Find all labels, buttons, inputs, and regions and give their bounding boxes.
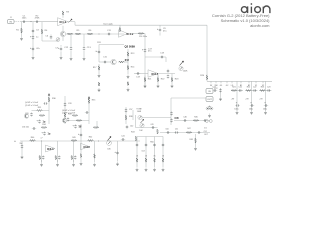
resistor R6 xyxy=(87,33,93,35)
capacitor C5 xyxy=(32,47,34,51)
capacitor C34 xyxy=(32,127,36,129)
svg-text:R13: R13 xyxy=(131,53,134,55)
ground xyxy=(144,84,147,88)
logo aion letter a xyxy=(241,6,247,13)
capacitor C36 xyxy=(21,144,23,148)
ground xyxy=(145,168,148,172)
resistor R17 xyxy=(98,66,100,70)
wire C12 drop xyxy=(70,34,72,47)
ground xyxy=(264,111,267,115)
wire leg C43 xyxy=(117,141,119,162)
wire xyxy=(157,75,159,78)
svg-text:C49: C49 xyxy=(150,124,153,126)
svg-text:R31: R31 xyxy=(38,107,41,109)
svg-text:Q7 VF = 5.2mV: Q7 VF = 5.2mV xyxy=(62,113,76,115)
wire tone top row xyxy=(145,56,166,58)
capacitor C41 xyxy=(121,138,125,140)
potentiometer GAIN xyxy=(107,141,112,146)
capacitor C37 xyxy=(85,111,89,113)
svg-text:R22: R22 xyxy=(247,87,250,89)
svg-text:x7: x7 xyxy=(41,138,43,140)
input pad IN xyxy=(8,20,15,24)
node C xyxy=(40,140,43,143)
wire R22 leg xyxy=(157,76,159,85)
capacitor CE3 xyxy=(264,104,268,106)
capacitor CE2 xyxy=(250,104,254,106)
resistor R36 xyxy=(72,115,78,117)
svg-text:100u: 100u xyxy=(249,108,253,110)
wire leg header xyxy=(137,136,163,138)
trimmer T1 xyxy=(56,38,60,42)
ground xyxy=(20,37,23,41)
svg-text:C42: C42 xyxy=(130,126,133,128)
svg-text:IC1.2: IC1.2 xyxy=(127,32,134,36)
svg-text:R48: R48 xyxy=(190,139,193,141)
capacitor CL2 xyxy=(58,155,60,159)
ground xyxy=(83,57,86,61)
capacitor C13 xyxy=(83,46,85,50)
wire Q2 feed xyxy=(99,44,124,46)
resistor R43 xyxy=(135,136,137,141)
wire xyxy=(80,158,82,162)
capacitor C44 xyxy=(170,111,172,115)
wire rail to power section xyxy=(206,25,208,81)
svg-text:470K: 470K xyxy=(35,18,40,20)
stub B1 xyxy=(240,81,242,83)
svg-text:100u: 100u xyxy=(263,108,267,110)
resistor R10 xyxy=(119,27,121,32)
svg-text:C23: C23 xyxy=(267,87,270,89)
ground xyxy=(136,168,139,172)
resistor R44 xyxy=(94,154,96,158)
potentiometer VOL wiper xyxy=(180,61,184,66)
ground xyxy=(32,56,35,60)
wire xyxy=(70,51,72,57)
resistor R9 xyxy=(138,33,144,35)
capacitor C2 xyxy=(35,21,39,23)
capacitor CG2 xyxy=(145,143,147,147)
capacitor C17 xyxy=(144,48,146,52)
svg-text:R35: R35 xyxy=(92,100,95,102)
svg-text:C52: C52 xyxy=(204,131,207,133)
capacitor CG3 xyxy=(153,143,155,147)
svg-text:IC2.1: IC2.1 xyxy=(152,72,159,76)
capacitor CG1 xyxy=(136,143,138,147)
capacitor C42 xyxy=(126,125,128,129)
wire center chain xyxy=(80,124,82,141)
ground xyxy=(208,114,211,118)
wire xyxy=(159,33,161,36)
wire R1 drop xyxy=(21,22,23,37)
resistor R5b xyxy=(67,33,73,35)
wire return drop xyxy=(170,98,172,125)
wire power rail xyxy=(207,80,272,82)
capacitor C47 xyxy=(203,119,207,121)
svg-text:C57: C57 xyxy=(129,109,132,111)
ground xyxy=(98,88,101,92)
capacitor C49 xyxy=(151,126,155,128)
svg-text:C41: C41 xyxy=(121,136,124,138)
ground xyxy=(127,88,130,92)
wire xyxy=(73,160,75,163)
resistor R38 xyxy=(125,115,127,120)
svg-text:bias supply: bias supply xyxy=(104,23,113,25)
svg-text:C53: C53 xyxy=(141,151,144,153)
svg-text:R40: R40 xyxy=(31,137,34,139)
ground xyxy=(236,111,239,115)
ground xyxy=(98,74,101,78)
wire return net xyxy=(171,97,206,99)
resistor R35 xyxy=(88,99,90,104)
resistor RL1 xyxy=(39,155,41,159)
wire IC2.1 output xyxy=(158,73,175,75)
potentiometer PAN xyxy=(140,123,144,127)
svg-text:R42: R42 xyxy=(89,137,92,139)
svg-text:R12: R12 xyxy=(125,60,130,62)
ground xyxy=(171,84,174,88)
wire R21 leg xyxy=(144,76,146,85)
wire leg BR4 xyxy=(162,137,164,168)
svg-text:R17: R17 xyxy=(93,67,96,69)
transistor Q2 xyxy=(111,59,116,64)
capacitor C57 xyxy=(125,108,127,112)
wire C36 leg xyxy=(21,141,23,155)
resistor R1 xyxy=(21,28,23,33)
wire bias feed xyxy=(48,93,50,124)
transistor Q6 xyxy=(62,118,66,122)
wire leg BL3 xyxy=(73,141,75,162)
resistor R13 xyxy=(127,52,129,57)
resistor R4 xyxy=(41,29,43,34)
ground xyxy=(250,111,253,115)
resistor R46 xyxy=(157,129,159,134)
stub G1 xyxy=(220,81,222,83)
capacitor C50 xyxy=(166,131,170,133)
stub 9V xyxy=(210,81,212,83)
resistor RG2 xyxy=(145,158,147,162)
ground xyxy=(116,162,119,166)
capacitor CB3 xyxy=(267,89,271,91)
ground xyxy=(194,147,197,151)
svg-text:Q2 5089: Q2 5089 xyxy=(125,44,136,48)
wire C13 drop xyxy=(83,34,85,47)
svg-text:100u: 100u xyxy=(234,108,238,110)
resistor R22 xyxy=(157,77,159,81)
svg-text:R23: R23 xyxy=(261,87,264,89)
capacitor C40 xyxy=(80,133,82,137)
svg-text:R43: R43 xyxy=(131,132,134,134)
wire Q2 base row xyxy=(99,61,111,63)
svg-text:C46: C46 xyxy=(183,116,186,118)
wire side chain 3 xyxy=(132,110,134,120)
resistor R5 xyxy=(75,33,81,35)
capacitor C43 xyxy=(116,151,118,155)
ground xyxy=(72,163,75,167)
resistor R20 xyxy=(206,75,208,80)
stub V1 xyxy=(255,81,257,83)
capacitor C30 xyxy=(43,102,47,104)
capacitor CE1 xyxy=(235,104,239,106)
op-amp IC1.2 body xyxy=(119,30,128,38)
svg-text:100K: 100K xyxy=(137,111,142,113)
wire rail drop xyxy=(74,22,76,26)
wire mix row xyxy=(160,132,210,134)
capacitor C19 xyxy=(136,72,140,74)
resistor R33 xyxy=(64,113,66,118)
wire branch 3 top xyxy=(260,90,272,92)
resistor R47 xyxy=(186,132,192,134)
svg-text:C22: C22 xyxy=(253,87,256,89)
ground xyxy=(60,56,63,60)
wire pan feed xyxy=(135,115,137,128)
wire branch 3 xyxy=(265,81,267,111)
capacitor C24 xyxy=(213,89,217,91)
resistor RB1 xyxy=(231,90,237,92)
resistor R18 xyxy=(98,82,100,86)
capacitor C15 xyxy=(103,61,107,63)
svg-text:Q6 VF = 5.2mV: Q6 VF = 5.2mV xyxy=(62,110,76,112)
ground xyxy=(153,168,156,172)
wire xyxy=(80,141,82,153)
resistor R40 xyxy=(30,140,36,142)
capacitor C9 xyxy=(159,28,161,32)
wire branch 1 xyxy=(236,81,238,111)
resistor R49 xyxy=(71,140,77,142)
svg-text:R47: R47 xyxy=(187,128,190,130)
resistor RG3 xyxy=(154,158,156,162)
wire side chain xyxy=(64,96,66,124)
wire branch 2 xyxy=(251,81,253,111)
resistor RL2 xyxy=(55,155,57,159)
wire branch 1 top xyxy=(231,90,243,92)
LED D1 xyxy=(206,107,209,110)
potentiometer TONE xyxy=(138,115,142,119)
svg-text:J1: J1 xyxy=(10,17,12,19)
wire Q2 emitter xyxy=(125,61,129,63)
capacitor C3 xyxy=(32,29,34,33)
svg-text:G1: G1 xyxy=(220,85,223,87)
resistor RL3 xyxy=(71,155,73,159)
wire tone net xyxy=(142,117,171,119)
wire input dashed xyxy=(15,21,22,23)
resistor R3 xyxy=(62,11,64,16)
svg-text:Q4 VF = 5.2mV: Q4 VF = 5.2mV xyxy=(25,102,39,104)
stub G2 xyxy=(226,81,228,83)
ground xyxy=(127,75,130,79)
wire R3 to IC1 xyxy=(62,15,64,17)
svg-text:R38: R38 xyxy=(129,116,132,118)
resistor R41 xyxy=(80,153,82,157)
wire leg BR1 xyxy=(136,137,138,168)
capacitor C11 xyxy=(107,33,111,35)
wire bias drop xyxy=(32,22,34,56)
ground xyxy=(219,97,222,101)
potentiometer GAIN wiper xyxy=(108,137,112,141)
capacitor C32 xyxy=(38,119,40,123)
op-amp IC2.1 body xyxy=(148,70,158,78)
power arrow xyxy=(48,94,50,96)
wire bottom signal row xyxy=(20,140,140,142)
op-amp IC1.1 body xyxy=(58,18,69,26)
wire xyxy=(57,160,59,163)
ground xyxy=(70,57,73,61)
svg-text:IC3.1: IC3.1 xyxy=(47,147,54,151)
svg-text:G2: G2 xyxy=(226,85,229,87)
svg-text:OUT: OUT xyxy=(207,99,212,101)
wire leg BL1 xyxy=(41,141,43,162)
resistor RB3 xyxy=(260,90,266,92)
ground xyxy=(93,163,96,167)
resistor RG4 xyxy=(162,158,164,162)
resistor R23 xyxy=(171,77,173,81)
stub B2 xyxy=(248,81,250,83)
logo aion letter o xyxy=(255,7,261,13)
wire leg BR2 xyxy=(145,137,147,168)
svg-text:100K: 100K xyxy=(183,71,188,73)
capacitor C51 xyxy=(174,131,178,133)
wire xyxy=(60,45,62,47)
wire IC1 output xyxy=(68,21,75,23)
wire stub xyxy=(96,121,98,128)
resistor R39 xyxy=(93,127,99,129)
wire tone mid row xyxy=(134,73,148,75)
resistor R31 xyxy=(37,110,43,112)
svg-text:R45: R45 xyxy=(194,116,197,118)
resistor R37 xyxy=(76,120,82,122)
svg-text:C33: C33 xyxy=(68,103,71,105)
logo aion letter i xyxy=(251,3,253,13)
jack pad OUT xyxy=(206,97,213,102)
wire leg BL2 xyxy=(57,141,59,162)
wire bias row xyxy=(42,40,59,42)
stub V2 xyxy=(262,81,264,83)
capacitor C46 xyxy=(183,119,187,121)
svg-text:C40: C40 xyxy=(78,126,81,128)
ground xyxy=(162,168,165,172)
stub LD xyxy=(231,81,233,83)
resistor R14 xyxy=(127,65,129,69)
capacitor CL3 xyxy=(74,155,76,159)
potentiometer PAN wiper xyxy=(141,119,144,123)
svg-text:R50: R50 xyxy=(150,142,153,144)
resistor RB2 xyxy=(246,90,252,92)
logo aion letter n xyxy=(263,6,270,13)
node D xyxy=(97,140,100,143)
ground xyxy=(21,155,24,159)
capacitor C18 xyxy=(160,56,164,58)
capacitor C7 xyxy=(60,47,62,51)
capacitor C21 xyxy=(167,74,169,78)
wire C9 drop xyxy=(159,25,161,27)
svg-text:C34 10n: C34 10n xyxy=(22,127,29,129)
svg-text:D1: D1 xyxy=(204,128,206,130)
node B xyxy=(98,33,101,36)
wire side chain 2 xyxy=(125,107,127,124)
wire branch 2 top xyxy=(246,90,258,92)
svg-text:R34: R34 xyxy=(42,124,45,126)
jack pad IN xyxy=(206,89,213,94)
capacitor C14 xyxy=(98,50,100,54)
wire xyxy=(68,120,89,122)
ground xyxy=(80,162,83,166)
svg-text:C16 100n: C16 100n xyxy=(139,36,147,38)
node A xyxy=(30,20,33,23)
wire xyxy=(41,160,43,163)
capacitor CB1 xyxy=(238,89,242,91)
resistor R15 xyxy=(127,82,129,86)
wire C7 to ground xyxy=(60,52,62,56)
resistor R48 xyxy=(195,138,197,143)
potentiometer VOL xyxy=(179,66,183,70)
capacitor CL1 xyxy=(42,155,44,159)
svg-text:C21: C21 xyxy=(238,87,241,89)
capacitor C20 xyxy=(167,69,169,73)
svg-text:IC3.2: IC3.2 xyxy=(84,145,91,149)
capacitor C12 xyxy=(70,46,72,50)
wire IC1 out drop xyxy=(62,26,64,32)
wire R10 drop xyxy=(119,25,121,32)
resistor R21 xyxy=(144,77,146,81)
capacitor C33 xyxy=(64,102,66,106)
capacitor C1 xyxy=(22,21,26,23)
capacitor CG4 xyxy=(162,143,164,147)
capacitor C35 xyxy=(43,131,45,135)
capacitor C6 xyxy=(50,35,52,39)
capacitor CB2 xyxy=(253,89,257,91)
wire second stage row xyxy=(66,33,124,35)
wire C22 leg xyxy=(220,88,222,97)
wire input row xyxy=(21,21,58,23)
wire xyxy=(32,110,50,112)
pad circle P1 xyxy=(205,120,208,123)
resistor RG1 xyxy=(136,158,138,162)
wire R17 drop xyxy=(98,64,100,74)
wire leg R44 xyxy=(94,141,96,162)
resistor R12 xyxy=(119,61,125,63)
wire IC1.2 output xyxy=(131,33,146,35)
wire tone drop xyxy=(144,34,146,89)
wire pan row xyxy=(136,127,158,129)
capacitor C4 xyxy=(32,35,34,39)
ground xyxy=(157,84,160,88)
transistor Q4 xyxy=(24,114,28,118)
wire leg BR3 xyxy=(154,137,156,168)
capacitor C45 xyxy=(170,118,172,122)
capacitor C38 xyxy=(67,117,69,121)
wire output row xyxy=(174,120,210,122)
ground xyxy=(56,163,59,167)
resistor R34 xyxy=(41,127,47,129)
wire Q2 collector chain xyxy=(127,49,129,74)
resistor R45 xyxy=(193,120,199,122)
resistor R42 xyxy=(88,140,94,142)
wire R23 leg xyxy=(171,76,173,85)
wire 9V rail xyxy=(75,24,207,26)
capacitor C22 xyxy=(219,88,221,92)
op-amp IC3.1 body xyxy=(46,145,56,152)
svg-text:C51: C51 xyxy=(175,129,178,131)
wire bias feed 2 xyxy=(88,96,90,124)
gain arrow xyxy=(69,19,73,23)
svg-text:R21: R21 xyxy=(232,87,235,89)
svg-text:C24: C24 xyxy=(212,87,215,89)
transistor Q1 xyxy=(60,31,65,36)
svg-text:R49: R49 xyxy=(72,137,75,139)
capacitor C31 xyxy=(30,112,32,116)
op-amp IC3.2 body xyxy=(81,143,90,150)
svg-text:C50: C50 xyxy=(165,129,168,131)
wire xyxy=(171,74,173,76)
